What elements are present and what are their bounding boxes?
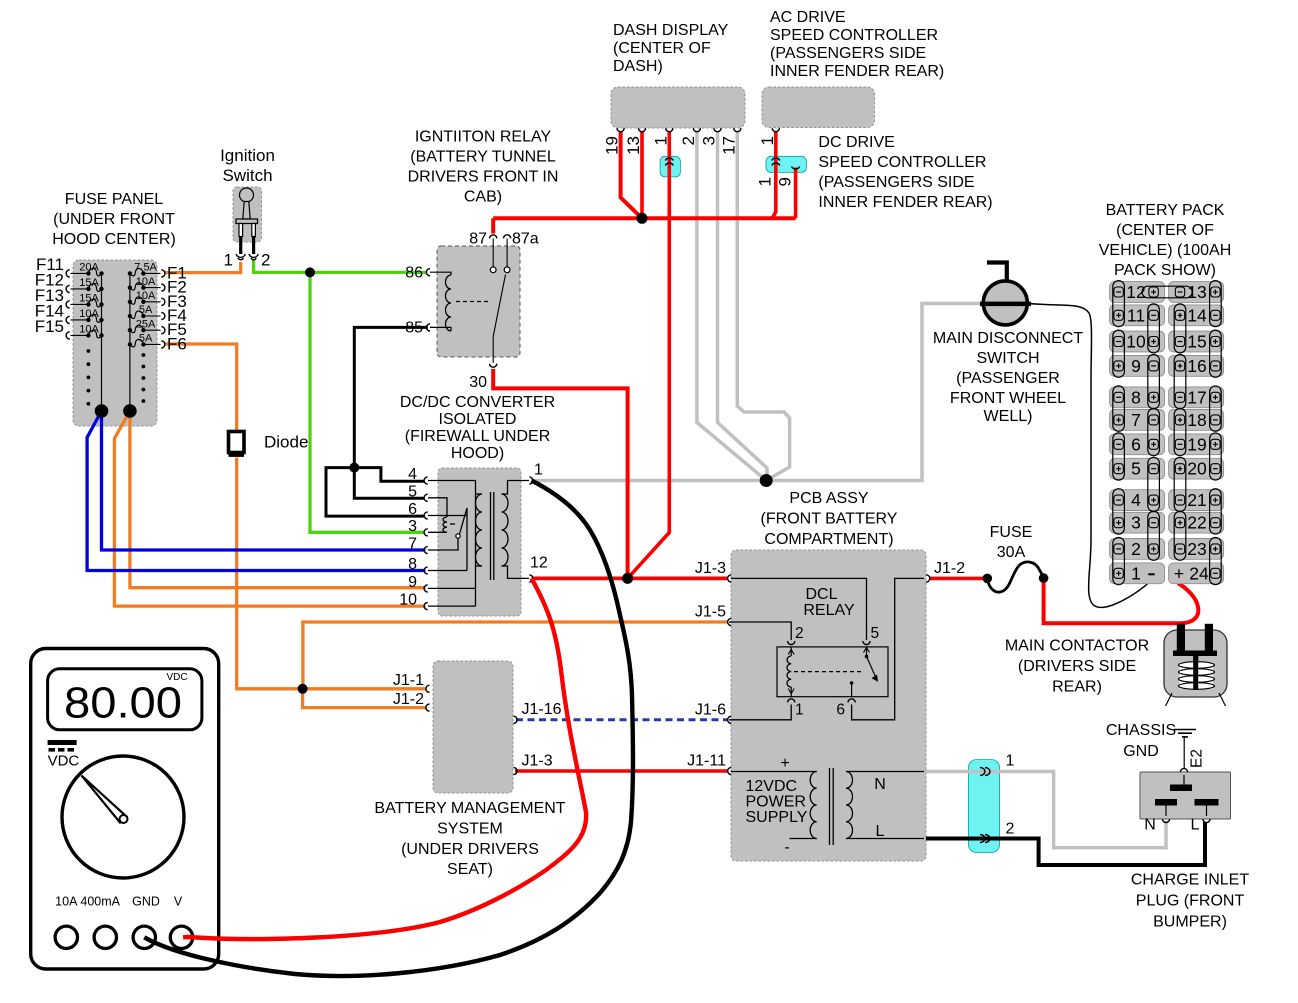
svg-text:1: 1 <box>1006 753 1015 770</box>
svg-text:87: 87 <box>469 231 487 248</box>
svg-text:INNER FENDER REAR): INNER FENDER REAR) <box>770 63 944 80</box>
svg-text:1: 1 <box>651 136 670 145</box>
svg-text:REAR): REAR) <box>1052 679 1102 696</box>
svg-text:DC DRIVE: DC DRIVE <box>818 134 894 151</box>
svg-text:GND: GND <box>132 895 160 909</box>
svg-text:V: V <box>174 895 183 909</box>
svg-text:9: 9 <box>776 177 795 186</box>
svg-text:10A: 10A <box>136 290 156 302</box>
svg-text:VDC: VDC <box>166 672 187 683</box>
svg-text:Switch: Switch <box>222 166 272 185</box>
svg-text:9: 9 <box>408 574 417 591</box>
svg-text:400mA: 400mA <box>80 895 120 909</box>
svg-text:2: 2 <box>795 625 804 642</box>
svg-text:Ignition: Ignition <box>220 146 275 165</box>
svg-text:30: 30 <box>469 374 487 391</box>
svg-text:VEHICLE) (100AH: VEHICLE) (100AH <box>1099 242 1232 259</box>
svg-text:10A: 10A <box>55 895 78 909</box>
svg-text:J1-2: J1-2 <box>393 691 424 708</box>
svg-text:10A: 10A <box>136 276 156 288</box>
svg-text:J1-3: J1-3 <box>695 560 726 577</box>
svg-text:PCB ASSY: PCB ASSY <box>789 490 868 507</box>
svg-text:GND: GND <box>1123 743 1159 760</box>
svg-text:30A: 30A <box>997 544 1026 561</box>
svg-text:4: 4 <box>1131 490 1141 510</box>
svg-text:CAB): CAB) <box>464 189 502 206</box>
svg-text:J1-1: J1-1 <box>393 672 424 689</box>
svg-text:CHARGE INLET: CHARGE INLET <box>1131 872 1249 889</box>
svg-text:E2: E2 <box>1189 749 1206 768</box>
svg-text:22: 22 <box>1187 513 1206 533</box>
svg-text:CHASSIS: CHASSIS <box>1106 722 1176 739</box>
svg-text:18: 18 <box>1187 410 1206 430</box>
svg-text:BATTERY PACK: BATTERY PACK <box>1106 202 1225 219</box>
svg-text:2: 2 <box>261 251 270 270</box>
svg-text:15: 15 <box>1187 332 1206 352</box>
svg-text:(FIREWALL UNDER: (FIREWALL UNDER <box>405 428 551 445</box>
svg-text:12VDC: 12VDC <box>746 778 798 795</box>
svg-text:3: 3 <box>700 136 719 145</box>
svg-text:10: 10 <box>1126 332 1146 352</box>
svg-text:4: 4 <box>408 466 417 483</box>
svg-text:16: 16 <box>1187 356 1206 376</box>
svg-text:MAIN DISCONNECT: MAIN DISCONNECT <box>933 330 1083 347</box>
svg-text:DASH DISPLAY: DASH DISPLAY <box>613 22 729 39</box>
svg-text:J1-2: J1-2 <box>934 560 965 577</box>
svg-text:12: 12 <box>1126 282 1145 302</box>
svg-text:(BATTERY TUNNEL: (BATTERY TUNNEL <box>410 149 556 166</box>
svg-text:6: 6 <box>408 501 417 518</box>
svg-text:19: 19 <box>603 136 622 155</box>
svg-text:J1-6: J1-6 <box>695 701 726 718</box>
svg-text:L: L <box>876 823 885 840</box>
svg-text:6: 6 <box>836 702 845 719</box>
svg-text:HOOD): HOOD) <box>451 445 504 462</box>
svg-text:SEAT): SEAT) <box>447 861 493 878</box>
svg-text:DCL: DCL <box>805 586 837 603</box>
svg-text:BUMPER): BUMPER) <box>1153 914 1227 931</box>
svg-text:PLUG (FRONT: PLUG (FRONT <box>1136 893 1245 910</box>
svg-text:Diode: Diode <box>264 433 308 452</box>
svg-text:7: 7 <box>408 536 417 553</box>
svg-text:HOOD CENTER): HOOD CENTER) <box>52 231 176 248</box>
svg-text:SUPPLY: SUPPLY <box>746 809 808 826</box>
svg-text:(PASSENGER: (PASSENGER <box>956 370 1060 387</box>
svg-text:17: 17 <box>719 136 738 155</box>
svg-text:J1-16: J1-16 <box>522 701 562 718</box>
svg-text:J1-3: J1-3 <box>522 753 553 770</box>
svg-text:(FRONT BATTERY: (FRONT BATTERY <box>761 511 898 528</box>
svg-text:2: 2 <box>679 136 698 145</box>
svg-text:SYSTEM: SYSTEM <box>437 821 503 838</box>
svg-text:2: 2 <box>1131 539 1141 559</box>
svg-text:DASH): DASH) <box>613 58 663 75</box>
svg-text:1: 1 <box>534 462 543 479</box>
svg-text:1: 1 <box>758 136 777 145</box>
svg-text:21: 21 <box>1187 490 1206 510</box>
svg-text:13: 13 <box>1187 282 1206 302</box>
svg-text:J1-11: J1-11 <box>687 753 726 770</box>
svg-text:SWITCH: SWITCH <box>976 350 1039 367</box>
svg-text:3: 3 <box>408 518 417 535</box>
svg-text:7.5A: 7.5A <box>134 262 157 274</box>
svg-text:-: - <box>784 839 789 856</box>
svg-text:20: 20 <box>1187 459 1207 479</box>
svg-text:12: 12 <box>530 555 548 572</box>
svg-text:J1-5: J1-5 <box>695 604 726 621</box>
svg-text:5A: 5A <box>139 333 153 345</box>
svg-text:14: 14 <box>1187 305 1207 325</box>
svg-text:80.00: 80.00 <box>64 679 182 728</box>
svg-text:13: 13 <box>624 136 643 155</box>
svg-text:9: 9 <box>1131 356 1141 376</box>
svg-text:(UNDER FRONT: (UNDER FRONT <box>53 211 175 228</box>
svg-text:8: 8 <box>408 556 417 573</box>
svg-text:PACK SHOW): PACK SHOW) <box>1114 262 1216 279</box>
svg-text:VDC: VDC <box>48 753 80 770</box>
svg-text:F15: F15 <box>35 317 64 336</box>
svg-text:1: 1 <box>224 251 233 270</box>
svg-text:RELAY: RELAY <box>803 602 855 619</box>
svg-text:ISOLATED: ISOLATED <box>439 411 517 428</box>
svg-text:N: N <box>874 776 886 793</box>
svg-text:(UNDER DRIVERS: (UNDER DRIVERS <box>401 841 539 858</box>
svg-text:85: 85 <box>405 320 423 337</box>
svg-text:IGNTIITON RELAY: IGNTIITON RELAY <box>415 129 552 146</box>
svg-text:8: 8 <box>1131 387 1141 407</box>
svg-text:(PASSENGERS SIDE: (PASSENGERS SIDE <box>818 174 974 191</box>
svg-text:1: 1 <box>795 702 804 719</box>
svg-text:1: 1 <box>1131 563 1141 583</box>
svg-text:FUSE: FUSE <box>990 524 1033 541</box>
svg-text:17: 17 <box>1187 387 1206 407</box>
svg-text:AC DRIVE: AC DRIVE <box>770 9 846 26</box>
svg-text:+: + <box>1174 563 1184 583</box>
svg-text:MAIN CONTACTOR: MAIN CONTACTOR <box>1005 638 1149 655</box>
svg-text:SPEED CONTROLLER: SPEED CONTROLLER <box>818 154 986 171</box>
svg-text:WELL): WELL) <box>984 408 1033 425</box>
svg-text:(PASSENGERS SIDE: (PASSENGERS SIDE <box>770 45 926 62</box>
svg-text:3: 3 <box>1131 513 1141 533</box>
svg-text:DC/DC CONVERTER: DC/DC CONVERTER <box>400 394 555 411</box>
svg-text:19: 19 <box>1187 434 1206 454</box>
svg-text:(DRIVERS SIDE: (DRIVERS SIDE <box>1018 658 1136 675</box>
svg-text:COMPARTMENT): COMPARTMENT) <box>764 531 893 548</box>
svg-text:5A: 5A <box>139 304 153 316</box>
svg-text:(CENTER OF: (CENTER OF <box>613 40 711 57</box>
svg-text:SPEED CONTROLLER: SPEED CONTROLLER <box>770 27 938 44</box>
svg-text:(CENTER OF: (CENTER OF <box>1116 222 1214 239</box>
svg-text:DRIVERS FRONT IN: DRIVERS FRONT IN <box>408 169 559 186</box>
svg-text:6: 6 <box>1131 434 1141 454</box>
svg-text:11: 11 <box>1127 305 1145 325</box>
svg-text:L: L <box>1191 817 1200 834</box>
svg-text:POWER: POWER <box>746 794 806 811</box>
svg-text:+: + <box>780 755 789 772</box>
svg-text:10: 10 <box>399 592 417 609</box>
svg-text:7: 7 <box>1131 410 1141 430</box>
svg-text:1: 1 <box>756 177 775 186</box>
svg-text:FRONT WHEEL: FRONT WHEEL <box>950 390 1066 407</box>
svg-text:F6: F6 <box>167 334 187 353</box>
svg-text:5: 5 <box>871 625 880 642</box>
svg-text:86: 86 <box>405 265 423 282</box>
svg-text:FUSE PANEL: FUSE PANEL <box>65 191 164 208</box>
svg-text:23: 23 <box>1187 539 1206 559</box>
svg-text:INNER FENDER REAR): INNER FENDER REAR) <box>818 194 992 211</box>
svg-text:2: 2 <box>1006 821 1015 838</box>
svg-text:5: 5 <box>1131 459 1141 479</box>
svg-text:N: N <box>1144 817 1156 834</box>
svg-text:BATTERY MANAGEMENT: BATTERY MANAGEMENT <box>374 800 565 817</box>
svg-text:5: 5 <box>408 483 417 500</box>
svg-text:24: 24 <box>1189 563 1209 583</box>
svg-text:25A: 25A <box>136 318 156 330</box>
svg-text:87a: 87a <box>512 231 539 248</box>
